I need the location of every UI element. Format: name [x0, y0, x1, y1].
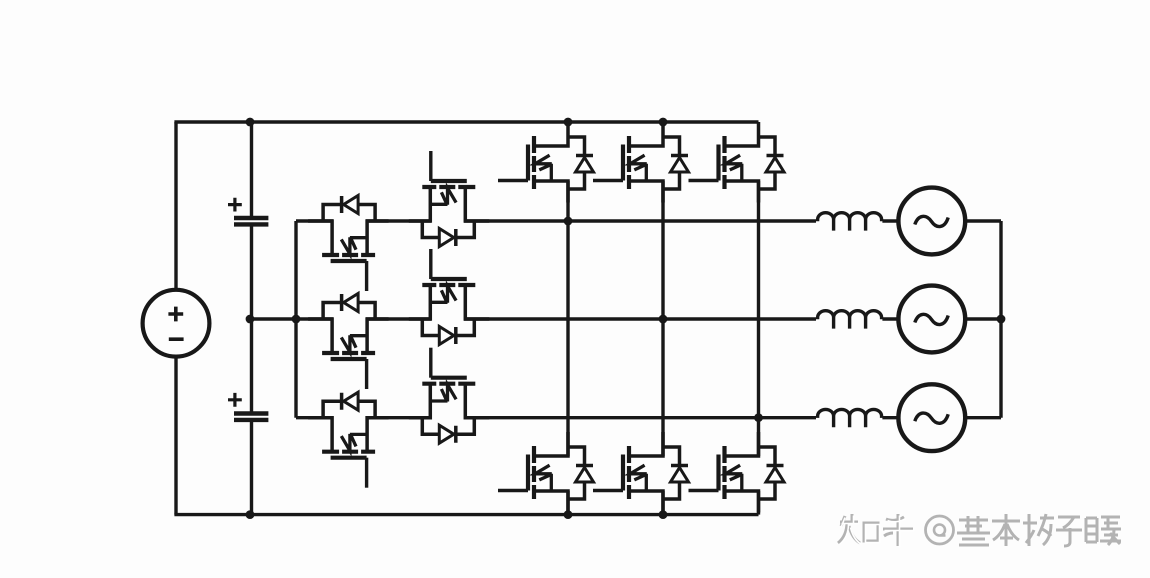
AC source / grid phase C — [898, 384, 965, 451]
wire capacitor branch C2 lower — [250, 420, 253, 515]
node DC+ / C1 — [246, 118, 255, 127]
wire phase B segment 2 — [366, 317, 431, 320]
capacitor C1 (upper DC-link, + polarity) — [228, 198, 268, 225]
transistor Q12 (phase C clamp, facing phase) with body diode — [409, 348, 490, 444]
wire grid C to neutral bus — [965, 416, 1001, 419]
wire bottom DC- rail — [174, 513, 758, 516]
wire L-to-source phase A — [882, 219, 898, 222]
node neutral point at clamp bus — [292, 315, 301, 324]
wire neutral-point bus — [294, 221, 297, 418]
transistor Q8 (phase A clamp, facing phase) with body diode — [409, 151, 490, 247]
wire inverter leg 1 to DC- rail — [566, 491, 569, 515]
transistor Q7 (phase A clamp, facing NP) with body diode — [308, 196, 389, 292]
AC source / grid phase A — [898, 188, 965, 255]
wire inverter leg 3 vertical — [757, 181, 760, 456]
wire grid A to neutral bus — [965, 219, 1001, 222]
transistor Q10 (phase B clamp, facing phase) with body diode — [409, 249, 490, 345]
transistor Q1 (phase A high-side) with body diode — [498, 122, 594, 203]
wire phase C segment 2 — [366, 416, 431, 419]
transistor Q3 (phase C high-side) with body diode — [689, 122, 785, 203]
wire phase C segment 1 — [296, 416, 333, 419]
transistor Q11 (phase C clamp, facing NP) with body diode — [308, 392, 389, 488]
inductor L3 (phase C filter) — [818, 409, 882, 427]
node DC- / leg1 — [564, 510, 573, 519]
wire grid B to neutral bus — [965, 317, 1001, 320]
transistor Q4 (phase A low-side) with body diode — [498, 432, 594, 513]
node DC+ / leg1 — [564, 118, 573, 127]
inductor L2 (phase B filter) — [818, 311, 882, 329]
node DC+ / leg2 — [659, 118, 668, 127]
wire L-to-source phase C — [882, 416, 898, 419]
node DC- / leg2 — [659, 510, 668, 519]
node phase C / leg3 — [754, 413, 763, 422]
inductor L1 (phase A filter) — [818, 213, 882, 231]
wire left bus upper (V1 to top rail) — [174, 122, 177, 290]
node neutral point at capacitors — [246, 315, 255, 324]
wire phase A segment 2 — [366, 219, 431, 222]
node phase A / leg1 — [564, 217, 573, 226]
wire capacitor link C1-C2 — [250, 224, 253, 413]
node phase B / leg2 — [659, 315, 668, 324]
wire phase A segment 1 — [296, 219, 333, 222]
capacitor C2 (lower DC-link, + polarity) — [228, 393, 268, 420]
wire phase B segment 1 — [296, 317, 333, 320]
wire inverter leg 3 to DC- rail — [757, 491, 760, 515]
wire inverter leg 2 vertical — [661, 181, 664, 456]
watermark text 知乎 @基本杨子曦 — [838, 514, 1121, 548]
wire phase C segment 3 (to filter) — [464, 416, 816, 419]
wire right neutral bus — [999, 221, 1002, 418]
transistor Q9 (phase B clamp, facing NP) with body diode — [308, 294, 389, 390]
wire capacitor branch C1 upper — [250, 122, 253, 218]
node grid neutral — [997, 315, 1006, 324]
transistor Q5 (phase B low-side) with body diode — [593, 432, 689, 513]
transistor Q6 (phase C low-side) with body diode — [689, 432, 785, 513]
transistor Q2 (phase B high-side) with body diode — [593, 122, 689, 203]
wire L-to-source phase B — [882, 317, 898, 320]
wire phase A segment 3 (to filter) — [464, 219, 816, 222]
wire inverter leg 1 vertical — [566, 181, 569, 456]
wire left bus lower (V1 to bottom rail) — [174, 356, 177, 514]
wire midpoint link — [250, 317, 296, 320]
DC voltage source V1 — [143, 290, 210, 357]
node DC- / C2 — [246, 510, 255, 519]
wire inverter leg 2 to DC- rail — [661, 491, 664, 515]
wire phase B segment 3 (to filter) — [464, 317, 816, 320]
AC source / grid phase B — [898, 286, 965, 353]
wire top DC+ rail — [174, 120, 758, 123]
